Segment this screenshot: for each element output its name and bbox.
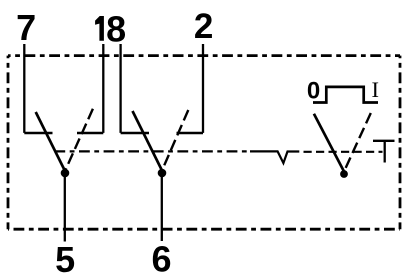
switch S1 pole junction dot [61,169,70,178]
latching switch pole junction dot [340,170,348,178]
terminal 7 lead wire [23,44,25,133]
switch S2 moving blade (closed position) [133,111,163,171]
mechanical coupling link (dash-dot, left section) [54,150,250,152]
svg-text:0: 0 [307,78,320,105]
terminal 5 lead wire [64,175,66,242]
terminal 2 lead wire [202,44,204,133]
actuation step waveform 0 to I [313,87,378,103]
fixed contact foot terminal 1 [77,132,103,134]
svg-text:7: 7 [16,7,36,48]
detent (latch) symbol stem [384,141,386,163]
terminal 1 lead wire [102,44,104,133]
terminal 1 label [95,16,104,41]
fixed contact foot terminal 8 [121,132,149,134]
terminal 8 lead wire [119,44,121,133]
fixed contact foot terminal 2 [177,132,204,134]
fixed contact foot terminal 7 [24,132,52,134]
svg-text:2: 2 [194,7,213,46]
detent (latch) symbol horizontal bar [373,140,395,142]
svg-text:6: 6 [151,239,171,276]
svg-text:5: 5 [55,239,75,276]
switch S2 moving blade (alternate position, dashed) [162,110,188,171]
enclosure border left side [7,56,10,230]
switch S1 moving blade (closed position) [36,112,65,171]
latching switch solid blade [314,114,344,172]
svg-text:8: 8 [106,9,126,50]
enclosure border right side [399,56,402,230]
switch S2 pole junction dot [158,169,167,178]
terminal 6 lead wire [161,175,163,241]
enclosure border bottom side [8,228,400,231]
svg-text:I: I [371,77,379,102]
mechanical coupling link solid segment with chevron notch [250,151,299,163]
latching switch dashed blade (alternate position) [344,113,371,172]
switch S1 moving blade (alternate position, dashed) [65,109,93,171]
enclosure border top side [8,54,400,57]
mechanical coupling link (dashed, right section) [304,151,383,153]
